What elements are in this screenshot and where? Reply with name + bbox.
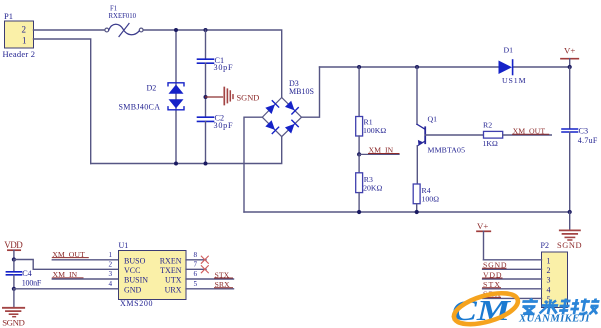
svg-text:100Ω: 100Ω [422, 194, 440, 203]
capacitor C3 4.7uF [562, 67, 598, 212]
net label STX (P2 pin4) [483, 280, 501, 289]
svg-text:BUSO: BUSO [124, 256, 146, 265]
svg-text:BUSIN: BUSIN [124, 276, 148, 285]
svg-text:30pF: 30pF [214, 121, 233, 130]
svg-text:MB10S: MB10S [289, 87, 314, 96]
svg-text:6: 6 [194, 270, 198, 278]
pin number 6 (U1) [194, 270, 198, 278]
wire U1 pin8 no-connect [186, 256, 208, 263]
svg-text:UTX: UTX [165, 276, 182, 285]
svg-text:SGND: SGND [483, 261, 507, 270]
svg-text:5: 5 [194, 280, 198, 288]
svg-text:2: 2 [22, 25, 27, 35]
earth ground SGND (bottom left) [2, 289, 25, 328]
wire P2 pin1 [484, 259, 542, 261]
node rail B / C3 / SGND drop [568, 210, 572, 214]
svg-text:C4: C4 [22, 269, 32, 278]
wire top rail y67 [320, 66, 570, 68]
svg-text:2: 2 [109, 261, 113, 269]
node rail A / C2 [204, 162, 208, 166]
svg-text:XM_OUT: XM_OUT [52, 250, 85, 259]
svg-text:20KΩ: 20KΩ [363, 183, 382, 192]
svg-text:8: 8 [194, 251, 198, 259]
svg-text:SRX: SRX [215, 280, 231, 289]
node rail B / R4 [415, 210, 419, 214]
node rail B / R3 [357, 210, 361, 214]
svg-text:STX: STX [483, 280, 500, 289]
svg-text:XM_OUT: XM_OUT [513, 127, 546, 136]
fuse F1 RXEF010 [105, 6, 143, 37]
wire P1 pin2 to fuse F1 [34, 29, 106, 31]
power V+ (above P2) [477, 221, 490, 260]
svg-text:MMBTA05: MMBTA05 [428, 145, 466, 154]
capacitor C1 30pF [198, 30, 233, 117]
pin number 7 (U1) [194, 261, 198, 269]
node y67 / V+ / C3 [568, 65, 572, 69]
net label XM_OUT (after R2) [513, 127, 549, 136]
node VDD junction [12, 257, 16, 261]
node XM_IN junction [357, 152, 361, 156]
transistor Q1 MMBTA05 [417, 67, 465, 184]
wire bridge right corner up [302, 67, 320, 117]
svg-text:US1M: US1M [502, 76, 526, 85]
power VDD (bottom left) [4, 240, 23, 260]
svg-text:TXEN: TXEN [160, 266, 182, 275]
net label XM_IN (U1 pin3) [52, 270, 83, 279]
svg-text:3: 3 [109, 270, 113, 278]
IC U1 XMS200 [119, 241, 187, 308]
svg-text:D1: D1 [504, 46, 514, 55]
pin number 1 (U1) [109, 251, 113, 259]
svg-text:RXEN: RXEN [160, 256, 182, 265]
svg-text:XM_IN: XM_IN [53, 270, 78, 279]
net label SGND (P2 pin2) [483, 261, 507, 270]
svg-text:C3: C3 [579, 126, 589, 135]
resistor R2 1K [483, 121, 552, 148]
svg-text:4.7uF: 4.7uF [578, 136, 598, 145]
svg-text:GND: GND [124, 285, 142, 294]
node y67 / Q1 collector [415, 65, 419, 69]
svg-text:4: 4 [547, 285, 551, 294]
net label SRX (P2 pin5) [483, 290, 501, 299]
earth ground SGND (right, below rail B) [557, 212, 582, 250]
svg-text:V+: V+ [564, 46, 575, 56]
wire rail A to bridge bottom corner [91, 137, 282, 164]
wire P2 pin5 [483, 297, 542, 299]
net label VDD (P2 pin3) [483, 270, 502, 279]
wire U1 pin5 SRX [186, 280, 234, 289]
bridge rectifier D3 MB10S [262, 79, 314, 137]
wire GND to U1 pin4 [14, 288, 119, 290]
node rail A / D2 [174, 162, 178, 166]
svg-text:SGND: SGND [237, 93, 260, 102]
svg-text:R2: R2 [483, 121, 492, 130]
svg-text:U1: U1 [119, 241, 129, 250]
diode D1 US1M [499, 46, 526, 86]
node C4 bottom / GND wire [12, 287, 16, 291]
watermark chinese text [520, 299, 600, 315]
pin number 5 (U1) [194, 280, 198, 288]
diode D3b upper-right [285, 101, 298, 114]
svg-text:1: 1 [109, 251, 113, 259]
wire U1 pin1 [52, 259, 118, 261]
svg-text:P1: P1 [4, 11, 13, 21]
capacitor C2 30pF [198, 113, 233, 163]
resistor R4 100ohm [413, 184, 439, 212]
net label XM_OUT (U1 pin1) [52, 250, 88, 259]
resistor R3 20K [356, 154, 383, 212]
power V+ (top right) [561, 46, 578, 67]
net label XM_IN [359, 146, 399, 155]
wire P2 pin2 [483, 268, 542, 270]
svg-text:1: 1 [547, 256, 551, 265]
wire VDD to U1 VCC pin2 [14, 260, 119, 270]
svg-text:STX: STX [215, 270, 230, 279]
pin number 4 (U1) [109, 280, 113, 288]
diode D3c lower-left [265, 120, 278, 133]
svg-text:XMS200: XMS200 [120, 299, 153, 308]
diode D3d lower-right [285, 120, 298, 133]
wire U1 pin3 [52, 278, 118, 280]
power ground SGND (middle) [206, 88, 260, 105]
wire bridge left corner to rail B [244, 117, 262, 212]
node top wire / D2 column [174, 28, 178, 32]
wire fuse to bridge top corner [143, 30, 282, 98]
wire P2 pin4 [483, 288, 542, 290]
svg-text:V+: V+ [477, 221, 488, 231]
watermark logo CM [451, 287, 522, 328]
svg-text:F1: F1 [110, 6, 117, 13]
capacitor C4 100nF [6, 260, 41, 289]
svg-text:SGND: SGND [2, 318, 25, 328]
svg-text:1: 1 [22, 35, 27, 45]
svg-text:D2: D2 [147, 84, 157, 93]
svg-text:VCC: VCC [124, 266, 140, 275]
svg-text:SGND: SGND [557, 241, 582, 250]
svg-text:Q1: Q1 [428, 115, 438, 124]
svg-text:VDD: VDD [4, 240, 23, 250]
svg-text:URX: URX [165, 285, 182, 294]
node y67 / R1 [357, 65, 361, 69]
connector P1 [3, 11, 36, 59]
wire U1 pin6 STX [186, 270, 234, 279]
connector P2 [541, 241, 568, 308]
wire U1 pin7 no-connect [186, 266, 208, 273]
pin number 2 (U1) [109, 261, 113, 269]
node top wire / C1 column [204, 28, 208, 32]
TVS diode D2 SMBJ40CA [119, 83, 185, 112]
svg-text:1KΩ: 1KΩ [483, 139, 499, 148]
svg-text:RXEF010: RXEF010 [109, 13, 137, 20]
svg-text:100nF: 100nF [22, 279, 42, 288]
wire Q1 base to R2 [425, 134, 483, 136]
svg-text:VDD: VDD [483, 270, 502, 279]
wire rail B [244, 211, 570, 213]
node C1/C2 SGND tap [204, 95, 208, 99]
pin number 3 (U1) [109, 270, 113, 278]
watermark latin text [518, 313, 590, 325]
svg-text:SMBJ40CA: SMBJ40CA [119, 102, 161, 111]
wire P1 pin1 down-left [34, 39, 91, 164]
pin number 8 (U1) [194, 251, 198, 259]
svg-text:P2: P2 [541, 241, 549, 250]
svg-text:Header 2: Header 2 [3, 49, 36, 59]
wire D2 column [175, 30, 177, 164]
svg-text:4: 4 [109, 280, 113, 288]
diode D3a upper-left [265, 101, 278, 114]
svg-text:XM_IN: XM_IN [369, 146, 394, 155]
svg-text:2: 2 [547, 266, 551, 275]
svg-text:3: 3 [547, 276, 551, 285]
svg-text:XUANMIKEJI: XUANMIKEJI [518, 313, 590, 325]
wire P2 pin3 [483, 278, 542, 280]
svg-text:100KΩ: 100KΩ [363, 126, 386, 135]
svg-text:30pF: 30pF [214, 63, 233, 72]
resistor R1 100K [356, 67, 387, 154]
svg-text:7: 7 [194, 261, 198, 269]
